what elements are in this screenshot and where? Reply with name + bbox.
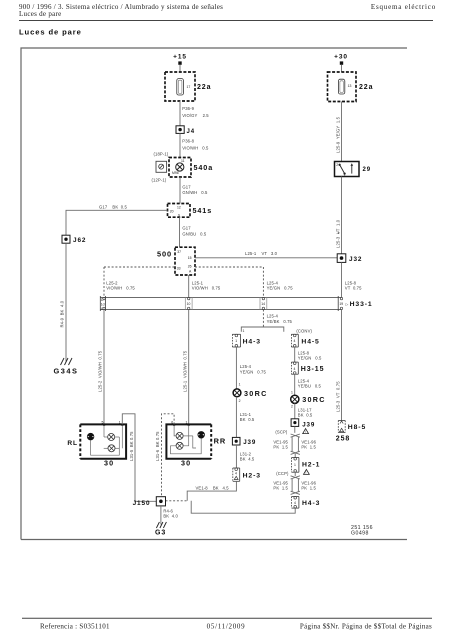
lamp 30RC right — [291, 395, 299, 403]
svg-text:J39: J39 — [243, 439, 256, 446]
svg-text:PK 1.5: PK 1.5 — [301, 445, 316, 450]
connector H3-15 — [291, 362, 298, 374]
ground G34S — [61, 358, 73, 365]
svg-text:05/11/2009: 05/11/2009 — [207, 623, 246, 631]
svg-text:H4-5: H4-5 — [301, 338, 319, 345]
wire +30 to fuse — [341, 65, 343, 72]
svg-text:G17: G17 — [182, 226, 191, 231]
wire +15 to fuse — [179, 65, 181, 72]
svg-text:15: 15 — [188, 256, 192, 260]
diagram frame (left, top, bottom) — [21, 48, 407, 540]
svg-text:RR: RR — [214, 436, 226, 445]
svg-text:G17 BK 0.5: G17 BK 0.5 — [99, 204, 128, 209]
svg-text:VIO/WH 0.75: VIO/WH 0.75 — [106, 286, 135, 291]
svg-text:GN/BU 0.5: GN/BU 0.5 — [182, 232, 206, 237]
twisted pair 2 bottom bowtie — [291, 491, 300, 494]
svg-text:20: 20 — [170, 210, 174, 214]
svg-text:37: 37 — [177, 250, 181, 254]
svg-text:1: 1 — [186, 420, 188, 424]
svg-text:YE/BU 0.5: YE/BU 0.5 — [298, 383, 322, 388]
svg-text:GN/WH 0.5: GN/WH 0.5 — [182, 190, 208, 195]
svg-text:1: 1 — [243, 329, 245, 333]
fuse element 17 — [177, 79, 184, 95]
svg-text:1: 1 — [294, 463, 296, 467]
lamp unit RR box — [166, 424, 211, 458]
svg-text:(CCP): (CCP) — [276, 471, 289, 476]
connector J32 — [337, 254, 346, 263]
connector J39 left — [232, 437, 240, 445]
svg-text:!: ! — [306, 471, 307, 475]
rail crossing at x=188.7 pin 10 — [184, 298, 186, 310]
RL stop lamp 2 — [108, 445, 115, 452]
svg-text:G34S: G34S — [54, 367, 79, 376]
wire rail to H8-5 — [341, 310, 343, 421]
svg-text:L31-5 BK 0.75: L31-5 BK 0.75 — [129, 431, 134, 461]
svg-text:RL: RL — [67, 440, 78, 447]
twisted pair 2 wires — [291, 479, 293, 492]
svg-text:G17: G17 — [182, 185, 191, 190]
svg-text:13: 13 — [348, 84, 352, 88]
svg-text:(12P-1): (12P-1) — [152, 178, 167, 183]
svg-text:YE/BK 0.75: YE/BK 0.75 — [267, 319, 293, 324]
svg-text:17: 17 — [187, 85, 191, 89]
svg-text:L25-1 VIO/WH 0.75: L25-1 VIO/WH 0.75 — [182, 350, 187, 392]
RL inner wiring — [91, 426, 123, 456]
svg-text:J32: J32 — [349, 256, 362, 263]
fuse box 22a (left) — [165, 72, 195, 101]
H8-5 pin arrow — [340, 421, 343, 424]
svg-text:+15: +15 — [173, 53, 187, 60]
svg-text:P36-8: P36-8 — [182, 139, 194, 144]
svg-text:1: 1 — [239, 382, 241, 386]
svg-text:L31-6 BK 0.75: L31-6 BK 0.75 — [155, 431, 160, 461]
arrow head — [351, 163, 354, 166]
svg-text:Luces de pare: Luces de pare — [19, 28, 82, 37]
dashed wire down to rail left end — [103, 267, 105, 298]
svg-text:4: 4 — [294, 339, 296, 343]
wire 540a to 541s — [179, 177, 181, 204]
rail right end pin 19 — [337, 296, 339, 311]
wire J32 to 500 pin15 — [195, 257, 337, 259]
svg-text:540a: 540a — [194, 163, 214, 172]
twisted pair wires — [291, 437, 293, 451]
svg-text:PK 1.5: PK 1.5 — [273, 486, 288, 491]
svg-text:2: 2 — [291, 405, 293, 409]
svg-text:VIO/WH 0.5: VIO/WH 0.5 — [182, 146, 209, 151]
svg-text:11: 11 — [181, 159, 185, 163]
wire 541s to 500 — [179, 217, 181, 247]
connector H2-1 — [292, 458, 299, 473]
svg-text:30: 30 — [181, 459, 191, 468]
wire 500 bottom to rail — [188, 275, 190, 298]
brake switch 29 — [335, 162, 360, 177]
T split wire — [241, 327, 283, 332]
wire H2-3 down and left to J150 joint — [187, 481, 236, 501]
svg-text:PK 1.5: PK 1.5 — [301, 486, 316, 491]
svg-text:4: 4 — [235, 472, 237, 476]
fuse element 13 — [338, 79, 344, 94]
RR inner wiring — [171, 426, 202, 454]
connector J150 — [156, 497, 165, 506]
svg-text:19: 19 — [339, 302, 343, 306]
RL tail lamp bulb (filled) — [87, 433, 94, 440]
aux box beside 540a — [156, 161, 167, 172]
svg-text:A: A — [189, 269, 192, 273]
footer rule — [22, 617, 432, 619]
svg-text:Referencia : S0351101: Referencia : S0351101 — [40, 623, 110, 631]
wire 29 to J32 — [341, 177, 343, 254]
rail crossing circles at x=104 — [103, 297, 105, 299]
svg-text:VE1-8 BK 4.5: VE1-8 BK 4.5 — [196, 486, 230, 491]
svg-text:!: ! — [305, 430, 306, 434]
svg-text:L25-4: L25-4 — [240, 364, 252, 369]
svg-text:14: 14 — [261, 302, 265, 306]
svg-text:J62: J62 — [73, 237, 86, 244]
RR tail lamp bulb (filled) — [198, 432, 205, 439]
svg-text:H8-5: H8-5 — [348, 424, 366, 431]
svg-text:22a: 22a — [359, 84, 373, 91]
lamp in 540a — [176, 163, 184, 171]
wire fuse to J4 — [179, 101, 181, 126]
svg-text:1: 1 — [235, 339, 237, 343]
lamp unit RL box — [80, 424, 126, 458]
svg-text:+30: +30 — [334, 53, 348, 60]
wire lamp to J39 left — [235, 397, 237, 438]
svg-text:9: 9 — [178, 213, 180, 217]
wire H3-15 to lamp 30RC right — [294, 374, 296, 395]
svg-text:1: 1 — [119, 420, 121, 424]
svg-text:1d: 1d — [101, 303, 105, 307]
connector H4-3 (upper) — [232, 334, 240, 347]
fuse box 22a (right) — [328, 72, 357, 102]
connector H2-3 — [233, 468, 240, 481]
svg-text:BK 4.0: BK 4.0 — [163, 514, 178, 519]
svg-text:10: 10 — [187, 302, 191, 306]
rail left end bracket — [99, 296, 101, 311]
warning triangle — [304, 469, 310, 474]
connector J62 — [62, 235, 70, 243]
svg-text:G3: G3 — [155, 530, 166, 537]
svg-text:VT 0.75: VT 0.75 — [345, 286, 362, 291]
warning triangle — [303, 429, 309, 434]
dashed wire 500 pin33 left — [104, 266, 175, 268]
connector H4-3 (lower) — [292, 497, 299, 509]
wire rail to RR lamp — [188, 310, 190, 425]
svg-text:Página $$Nr. Página de $$Total: Página $$Nr. Página de $$Total de Página… — [300, 623, 432, 631]
svg-text:2: 2 — [336, 163, 338, 167]
switch lever — [339, 164, 352, 174]
wire fuse to switch 29 — [341, 102, 343, 162]
svg-text:BK 0.5: BK 0.5 — [240, 417, 255, 422]
control unit 500 dashed box — [175, 247, 195, 275]
twisted pair 2 top bowtie — [291, 472, 300, 479]
wire J39 to H2-3 — [235, 445, 237, 468]
svg-text:J4: J4 — [187, 129, 195, 135]
twisted pair bottom bowtie — [291, 451, 300, 457]
svg-text:30: 30 — [104, 459, 114, 468]
svg-text:30RC: 30RC — [244, 389, 268, 398]
RL stop lamp 1 — [108, 434, 115, 441]
svg-text:H2-1: H2-1 — [302, 461, 320, 468]
rail crossing at x=263.4 pin 14 — [259, 298, 261, 310]
svg-text:22a: 22a — [197, 84, 211, 91]
dashed wire rail to T split — [262, 310, 264, 328]
wire from H4-3 lower loop — [191, 501, 295, 513]
svg-text:VIO/GY 2.5: VIO/GY 2.5 — [182, 113, 209, 118]
wire J62 to G34S — [65, 243, 67, 361]
wire J150 to G3 — [160, 506, 162, 525]
svg-text:BK 4.5: BK 4.5 — [240, 457, 255, 462]
svg-text:L25-2 VIO/WH 0.75: L25-2 VIO/WH 0.75 — [98, 350, 103, 392]
twisted pair top bowtie — [291, 426, 300, 437]
dashed wire RR pin6 up over to J150 — [162, 414, 175, 497]
svg-text:PK 1.5: PK 1.5 — [273, 445, 288, 450]
svg-text:▷: ▷ — [346, 302, 349, 306]
svg-text:4: 4 — [294, 501, 296, 505]
svg-text:L25-1 VT 3.0: L25-1 VT 3.0 — [245, 251, 278, 256]
svg-text:258: 258 — [336, 436, 350, 443]
svg-text:M96: M96 — [172, 171, 179, 175]
svg-text:L25-4: L25-4 — [267, 314, 279, 319]
wire 541s left to J62 — [66, 210, 168, 235]
connector H8-5 — [338, 421, 345, 433]
svg-text:H33-1: H33-1 — [350, 301, 373, 308]
svg-text:26: 26 — [188, 264, 192, 268]
svg-text:(18P-1): (18P-1) — [154, 152, 169, 157]
svg-text:BK 0.5: BK 0.5 — [298, 412, 313, 417]
svg-text:H2-3: H2-3 — [243, 473, 261, 480]
svg-text:YE/GN 0.75: YE/GN 0.75 — [240, 369, 267, 374]
svg-text:H3-15: H3-15 — [301, 366, 325, 373]
svg-text:4: 4 — [294, 367, 296, 371]
svg-text:L25-9 YE/GY 1.5: L25-9 YE/GY 1.5 — [335, 116, 340, 153]
wire RL pin1 up over to J150 — [122, 414, 156, 502]
dashed wire 500 pin26 right then down — [195, 267, 263, 298]
svg-text:J39: J39 — [302, 421, 315, 428]
svg-text:H4-3: H4-3 — [302, 500, 320, 507]
svg-text:1: 1 — [338, 231, 340, 235]
svg-text:1: 1 — [344, 173, 346, 177]
svg-text:J150: J150 — [133, 500, 151, 507]
svg-text:33: 33 — [177, 266, 181, 270]
RR stop lamp 2 — [176, 442, 183, 449]
svg-text:541s: 541s — [193, 206, 213, 215]
wire lamp to J39 right — [294, 403, 296, 418]
svg-text:Luces de pare: Luces de pare — [19, 10, 62, 18]
svg-text:H4-3: H4-3 — [243, 338, 261, 345]
connector J39 right — [291, 419, 299, 427]
svg-text:VIO/WH 0.75: VIO/WH 0.75 — [192, 286, 221, 291]
svg-text:29: 29 — [363, 167, 371, 173]
dashed wire joint to J150 — [166, 500, 188, 502]
H2-3 triangle — [234, 476, 238, 479]
svg-text:500: 500 — [157, 250, 172, 259]
switch unit 540a dashed box — [169, 158, 191, 178]
svg-text:Esquema eléctrico: Esquema eléctrico — [371, 3, 436, 11]
svg-text:(CONV): (CONV) — [296, 329, 312, 334]
svg-text:1: 1 — [291, 390, 293, 394]
wire rail to RL lamp — [103, 310, 105, 425]
connector J4 — [176, 126, 184, 134]
ground G3 — [156, 522, 166, 528]
svg-text:12: 12 — [177, 205, 181, 209]
relay 541s dashed box — [168, 204, 191, 218]
RR stop lamp 1 — [176, 432, 183, 439]
svg-text:YE/GN 0.75: YE/GN 0.75 — [267, 286, 294, 291]
svg-text:R4-9 BK 4.0: R4-9 BK 4.0 — [60, 300, 65, 327]
svg-text:2: 2 — [239, 399, 241, 403]
wire J4 to 540a — [179, 133, 181, 157]
svg-text:(SCP): (SCP) — [275, 430, 287, 435]
connector H4-5 — [291, 334, 298, 347]
H8-5 triangle — [340, 428, 344, 431]
wire H4-5 to H3-15 — [294, 347, 296, 362]
wire H4-3 to lamp 30RC left — [235, 347, 237, 389]
header rule — [19, 20, 433, 22]
svg-text:P36-9: P36-9 — [182, 106, 194, 111]
connector rail H33-1 — [100, 297, 341, 299]
svg-text:YE/GN 0.5: YE/GN 0.5 — [298, 355, 322, 360]
svg-text:G0498: G0498 — [351, 531, 369, 537]
lamp 30RC left — [233, 389, 241, 397]
wire J32 to rail — [341, 262, 343, 297]
svg-text:L25-3 VT 0.75: L25-3 VT 0.75 — [335, 381, 340, 412]
svg-text:30RC: 30RC — [302, 395, 326, 404]
